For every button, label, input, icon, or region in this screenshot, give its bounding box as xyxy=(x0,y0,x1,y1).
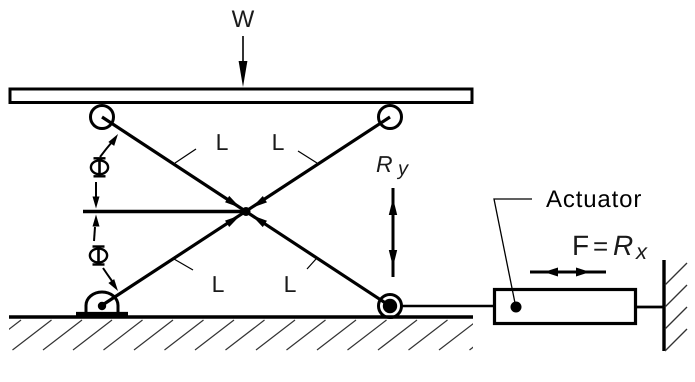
svg-text:F: F xyxy=(572,230,589,261)
arrowhead on lower-left half-arm xyxy=(225,212,243,227)
leader tick upper-left xyxy=(175,149,196,163)
center pivot dot xyxy=(242,207,251,216)
roller bottom-right (outer ring) xyxy=(379,295,402,318)
force label F = Rx xyxy=(572,230,648,264)
wall line xyxy=(662,260,665,351)
reaction label Ry xyxy=(376,151,409,180)
load arrow W xyxy=(239,36,248,87)
phi arrow to upper arm xyxy=(100,132,121,157)
ground hatching xyxy=(0,320,509,350)
angle label phi upper xyxy=(91,158,108,176)
actuator pin dot xyxy=(511,302,522,313)
ground line xyxy=(9,315,473,318)
arrowhead on upper-left half-arm xyxy=(225,196,243,211)
phi arrow to lower arm xyxy=(103,268,121,293)
svg-text:y: y xyxy=(396,158,409,180)
svg-text:L: L xyxy=(212,271,225,297)
pin joint top-left xyxy=(91,106,114,129)
svg-text:=: = xyxy=(593,231,608,261)
pin support bottom-left (dome and base) xyxy=(76,292,128,314)
svg-text:R: R xyxy=(613,230,633,261)
svg-text:Actuator: Actuator xyxy=(546,186,642,213)
scissor arm B (top-right to bottom-left pin) xyxy=(104,117,390,304)
pin support pivot dot xyxy=(98,302,106,310)
actuator body xyxy=(495,290,636,324)
leader tick lower-left xyxy=(174,259,193,270)
connecting rod to actuator xyxy=(400,305,493,308)
phi arrow down to reference line xyxy=(93,182,100,209)
leader tick upper-right xyxy=(298,151,317,163)
horizontal reference line xyxy=(83,210,246,213)
roller hub dot xyxy=(383,299,397,313)
reaction arrow Ry (vertical double-headed) xyxy=(389,188,397,277)
svg-text:L: L xyxy=(272,129,285,155)
svg-text:R: R xyxy=(376,151,393,177)
scissor arm A (top-left to bottom-right roller) xyxy=(102,117,390,306)
phi arrow up to reference line xyxy=(93,215,100,242)
wall hatch ticks xyxy=(665,263,687,351)
angle label phi lower xyxy=(90,247,107,265)
platform xyxy=(10,89,472,103)
rod to wall xyxy=(636,306,664,309)
leader tick lower-right xyxy=(307,259,316,269)
svg-text:L: L xyxy=(284,271,297,297)
actuator leader line xyxy=(494,199,532,303)
force arrow F (horizontal double-headed) xyxy=(530,268,606,277)
pin joint top-right xyxy=(379,106,402,129)
arrowhead on lower-right half-arm xyxy=(249,212,267,227)
svg-text:x: x xyxy=(635,239,648,264)
arrowhead on upper-right half-arm xyxy=(249,196,267,211)
svg-text:L: L xyxy=(216,129,229,155)
svg-text:W: W xyxy=(232,6,255,33)
